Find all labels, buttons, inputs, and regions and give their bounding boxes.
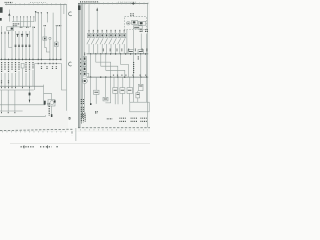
net jog 4	[121, 54, 129, 77]
bus B2a ticks	[2, 87, 30, 88]
legend mark a	[95, 112, 98, 113]
comb tails	[20, 22, 30, 27]
feed risers along border	[81, 3, 84, 124]
antenna wire W1	[96, 8, 98, 34]
datum cross	[132, 2, 135, 5]
right bottom tick numbers	[80, 129, 148, 131]
fuse box 2	[127, 88, 133, 94]
bundle continues down	[2, 68, 33, 86]
bus R2	[87, 76, 149, 78]
wire label column 9	[32, 62, 34, 69]
caption text	[21, 146, 35, 148]
wire label column 4	[11, 62, 13, 71]
tank box top edge	[0, 104, 45, 106]
right page bottom dashed border	[78, 127, 150, 129]
heater chain box 4	[83, 72, 86, 76]
bus R2 ticks	[91, 76, 147, 78]
switch S2 label	[56, 25, 61, 27]
heater chain box 1	[83, 57, 86, 61]
switch S1 label	[44, 25, 46, 27]
bus B1	[0, 58, 62, 60]
control unit A1 dashed box	[125, 17, 147, 30]
unit A1 label ticks	[131, 13, 133, 16]
tank box bottom edge	[0, 115, 45, 117]
left page bottom dashed border	[0, 129, 72, 135]
bottom legend label 1	[82, 113, 84, 118]
connector comb X1 pin dots	[14, 15, 34, 18]
mid bus ML labels	[42, 66, 57, 70]
fuse links	[137, 91, 139, 103]
ground drop 3	[14, 90, 16, 111]
frame right border	[66, 4, 68, 111]
legend group c	[119, 118, 125, 121]
ground ticks	[2, 112, 15, 113]
wire step	[45, 40, 50, 52]
diode D1	[8, 10, 10, 22]
feed to first switch	[88, 4, 90, 29]
capacitor C3 marks	[26, 34, 28, 37]
frame top border	[5, 3, 67, 5]
fuse box 1	[120, 88, 125, 94]
gutter fold line	[75, 128, 77, 141]
chain top label	[84, 53, 86, 56]
top ruler ticks	[7, 3, 66, 5]
pump M1 ground lead	[51, 106, 53, 116]
legend group e	[140, 118, 147, 121]
ground drop 1	[1, 90, 3, 111]
legend mark b	[107, 118, 112, 120]
right sheet header text	[80, 1, 99, 3]
drop pair	[105, 77, 110, 103]
relay K1 box	[7, 27, 14, 31]
relay box on bus a	[128, 50, 134, 54]
wire to pump	[43, 85, 51, 105]
relay K4 box	[103, 97, 108, 101]
bus B2b	[0, 89, 34, 91]
bus R1 labels	[103, 49, 146, 52]
border label block	[78, 5, 81, 10]
mid bus ML	[35, 63, 62, 65]
net ladder 2	[101, 54, 118, 77]
capacitor C1 marks	[16, 34, 18, 37]
wire label column 5	[15, 62, 17, 72]
connector label block X0	[0, 7, 3, 13]
contact block inside A1	[132, 21, 138, 25]
net ladder 3	[106, 54, 125, 77]
sheet header text left	[5, 2, 13, 4]
lamp L1	[49, 37, 51, 39]
wire label column 3	[8, 62, 10, 72]
frame top border	[78, 2, 148, 4]
switch bank drops	[89, 44, 124, 54]
fuse box 0	[113, 88, 118, 94]
paper background	[0, 0, 150, 150]
motor M2	[82, 78, 87, 83]
capacitor C2 marks	[21, 34, 23, 37]
terminal labels row	[20, 26, 23, 28]
bottom tick numbers	[2, 131, 66, 133]
left wire bundle risers	[2, 26, 33, 59]
frame right border	[147, 3, 149, 127]
chain tap to bus	[86, 73, 88, 77]
connector comb X1 pins	[14, 17, 34, 22]
unit A1 output stubs	[127, 30, 142, 54]
switch bank blades	[87, 38, 125, 44]
right drops below bus R2	[114, 77, 146, 104]
flat block inside A1	[133, 26, 142, 29]
wire drops right of bank	[141, 34, 146, 54]
mid bus ML left drop	[34, 64, 36, 91]
bus R1	[87, 53, 149, 55]
drop long 1	[90, 77, 92, 104]
border labels lower	[81, 99, 83, 105]
mid bus ML ticks	[38, 63, 56, 64]
bus R2 tiny labels	[114, 75, 146, 77]
wire label column 7	[25, 62, 27, 73]
motor lead	[84, 84, 86, 113]
component row rail	[13, 26, 31, 28]
harness mark C2	[69, 62, 72, 66]
under-page edge line	[10, 143, 150, 145]
tank sensor bars	[44, 101, 46, 105]
wire riser f6	[63, 4, 65, 14]
switch bank boxes	[87, 33, 125, 37]
wire riser f4	[52, 13, 54, 60]
drops into ground bar	[115, 93, 130, 104]
right top ruler ticks	[81, 2, 148, 4]
fuse F1 box	[21, 64, 24, 69]
wire riser f3	[46, 13, 48, 23]
wire label column 6	[18, 62, 20, 70]
harness mark C3	[68, 117, 70, 119]
relay K3 box	[94, 90, 99, 94]
switch S1	[43, 37, 47, 40]
wire label column 2	[4, 62, 6, 71]
connector comb X1 label	[13, 23, 20, 25]
wire riser f2	[40, 13, 42, 60]
wire node A	[36, 11, 39, 21]
resistor R2 drop	[29, 86, 31, 102]
labels right of bank	[140, 29, 147, 33]
pump M1 box	[48, 100, 55, 106]
inline connector ticks	[15, 45, 31, 46]
ground bus	[0, 110, 23, 112]
splice dots	[1, 32, 2, 33]
legend group d	[131, 118, 138, 121]
heater chain box 3	[83, 67, 86, 71]
ground bar box	[130, 102, 149, 112]
bus B1 junction ticks	[2, 59, 61, 61]
border labels lowest	[81, 114, 85, 122]
wire label near 138	[137, 56, 139, 60]
relay K2 inside A1	[127, 21, 131, 25]
mid bus ML right drop	[62, 64, 67, 91]
bus B2a	[0, 85, 44, 87]
harness mark C1	[69, 12, 72, 16]
wire riser f5	[60, 4, 62, 59]
ground drop 2	[7, 90, 9, 111]
net ladder 1	[96, 54, 111, 77]
border label specks	[80, 59, 82, 76]
wire jog g	[9, 44, 13, 47]
crease mark	[48, 103, 50, 116]
bus R1 junction ticks	[91, 53, 146, 55]
switch bank labels	[89, 30, 124, 33]
wire label column 1	[1, 62, 3, 72]
relay box on bus b	[138, 50, 144, 54]
connector label block X0b	[0, 18, 2, 21]
sheet header text mid	[30, 2, 46, 4]
connector comb X1 rail	[12, 21, 34, 23]
wire label on net 133	[133, 62, 135, 74]
frame left border double	[79, 3, 80, 127]
contact block 2 inside A1	[139, 21, 146, 25]
wire label column 8	[29, 62, 31, 71]
bus B2a labels	[2, 80, 9, 83]
fuse box 4	[136, 93, 140, 98]
heater chain box 2	[83, 62, 86, 66]
switch S3 box	[55, 42, 58, 47]
fuse box 3	[138, 84, 143, 90]
wire riser f1	[37, 13, 39, 60]
straight drops to bus R2	[91, 54, 147, 77]
